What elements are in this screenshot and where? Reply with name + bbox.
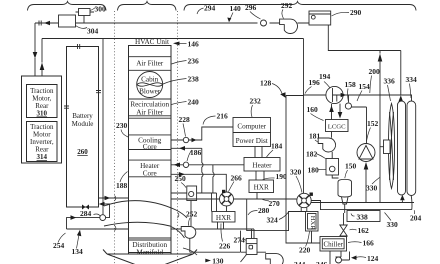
wire into fan226 — [171, 198, 297, 200]
wire battery loop — [67, 204, 110, 229]
svg-text:238: 238 — [188, 75, 200, 84]
svg-text:130: 130 — [212, 256, 224, 264]
svg-text:204: 204 — [410, 214, 422, 223]
svg-text:HXR: HXR — [254, 184, 269, 192]
svg-text:250: 250 — [175, 174, 187, 183]
HVAC unit outer box — [129, 46, 172, 255]
svg-text:HVAC Unit: HVAC Unit — [135, 38, 169, 46]
big flow arrow — [107, 253, 193, 255]
fan lens 336 — [389, 104, 395, 189]
svg-text:182: 182 — [306, 150, 318, 159]
sensor 180 — [326, 159, 339, 176]
arrow into battery — [99, 202, 105, 207]
wires computer down — [255, 147, 262, 158]
wire heater out — [171, 165, 244, 193]
label 146 — [179, 43, 187, 45]
svg-text:LCGC: LCGC — [328, 123, 346, 130]
arrow down to motor — [33, 52, 38, 59]
pump scroll bottom — [266, 254, 284, 264]
svg-text:190: 190 — [276, 172, 288, 181]
tick battery right — [96, 91, 101, 93]
wire elbow to motors — [34, 23, 36, 76]
svg-text:194: 194 — [319, 72, 331, 81]
wire 290 down-right — [328, 25, 401, 95]
svg-text:314: 314 — [37, 153, 48, 161]
valve 158 — [345, 103, 351, 109]
svg-text:180: 180 — [308, 166, 320, 175]
wire battery drop x103 — [102, 39, 104, 215]
dotted zone boundary right — [177, 11, 179, 264]
valve on battery bottom — [82, 205, 89, 210]
svg-text:294: 294 — [204, 4, 216, 13]
wire motor up — [41, 39, 43, 77]
wire 324 corner / 280 branch — [247, 199, 306, 231]
tick battery left — [64, 106, 69, 108]
svg-text:150: 150 — [345, 162, 357, 171]
arrow condenser top — [399, 95, 404, 101]
svg-text:184: 184 — [271, 142, 283, 151]
svg-text:228: 228 — [179, 115, 191, 124]
svg-text:274: 274 — [234, 236, 246, 245]
tick battery top — [78, 44, 80, 49]
condenser capsule 1 — [398, 101, 406, 195]
canister 150 — [338, 179, 352, 197]
motors outer box — [22, 76, 62, 163]
svg-text:152: 152 — [367, 119, 379, 128]
svg-text:Cabin: Cabin — [141, 76, 159, 84]
pump 292 — [280, 19, 298, 33]
heater box — [244, 158, 280, 172]
HXR box 226 — [212, 212, 235, 223]
brace right — [184, 2, 416, 11]
svg-text:Air Filter: Air Filter — [136, 60, 164, 68]
chiller box — [320, 237, 347, 252]
svg-text:Recirculation: Recirculation — [130, 101, 169, 109]
canister to valve — [344, 204, 345, 225]
fan 320 — [297, 193, 313, 208]
svg-text:Chiller: Chiller — [323, 241, 343, 249]
svg-text:344: 344 — [294, 260, 306, 264]
distribution manifold — [129, 238, 172, 253]
fan 226 — [220, 190, 234, 206]
svg-text:Manifold: Manifold — [136, 248, 163, 256]
tick on wire — [39, 21, 41, 26]
battery module box — [67, 47, 99, 208]
arrow up x380 — [378, 54, 383, 62]
lcgc compressor arrows — [332, 104, 341, 120]
arrow into heater — [174, 163, 180, 168]
HXR 220 box — [306, 212, 319, 232]
svg-text:240: 240 — [188, 98, 200, 107]
svg-text:140: 140 — [230, 4, 242, 13]
condenser capsule 2 — [407, 101, 416, 196]
wire top main y22 — [35, 22, 309, 24]
svg-text:124: 124 — [367, 254, 379, 263]
blower 181 — [318, 138, 335, 152]
svg-text:236: 236 — [188, 57, 200, 66]
circle 284 — [100, 215, 106, 221]
svg-text:188: 188 — [116, 181, 128, 190]
svg-text:310: 310 — [37, 110, 48, 118]
svg-text:154: 154 — [359, 82, 371, 91]
wire 300 to main — [76, 12, 95, 23]
svg-text:186: 186 — [190, 148, 202, 157]
svg-text:324: 324 — [267, 216, 279, 225]
svg-text:160: 160 — [307, 105, 319, 114]
brace left — [28, 2, 107, 11]
recirculation cell — [129, 99, 172, 118]
duct curve upper — [104, 201, 187, 218]
svg-text:230: 230 — [116, 121, 128, 130]
fan320 wires — [301, 201, 320, 212]
svg-text:Battery: Battery — [72, 112, 93, 120]
wire bottom y209.6 — [320, 209, 412, 211]
svg-text:HXR: HXR — [216, 214, 231, 222]
wire main refrigerant y95 — [304, 95, 412, 101]
dotted zone boundary left — [114, 11, 116, 264]
wire cooling in — [171, 148, 203, 193]
svg-text:Computer: Computer — [237, 123, 266, 131]
duct to 130 — [183, 248, 197, 255]
svg-text:158: 158 — [345, 80, 357, 89]
label 338 — [351, 214, 355, 217]
wire 128 corner — [286, 96, 320, 244]
box 304 — [59, 15, 76, 27]
wire bottom y202.5 — [304, 202, 415, 204]
wire cooling out — [171, 127, 233, 140]
heater core cell — [129, 160, 172, 177]
svg-text:254: 254 — [53, 241, 65, 250]
wire heater in — [171, 174, 226, 192]
chiller bottom wires — [330, 251, 341, 264]
valve 162 — [340, 225, 347, 236]
svg-text:232: 232 — [250, 97, 262, 106]
label 240 — [172, 102, 187, 105]
svg-text:HXR: HXR — [309, 216, 316, 231]
svg-text:304: 304 — [87, 27, 99, 36]
traction motor rear box — [27, 85, 58, 118]
svg-text:292: 292 — [281, 1, 293, 10]
svg-text:128: 128 — [260, 79, 272, 88]
svg-text:290: 290 — [350, 8, 362, 17]
svg-text:270: 270 — [269, 199, 281, 208]
arrow condenser bottom — [400, 195, 405, 201]
svg-text:320: 320 — [290, 168, 302, 177]
label 236 — [172, 61, 187, 65]
svg-text:Core: Core — [143, 170, 157, 178]
svg-text:330: 330 — [366, 184, 378, 193]
svg-text:280: 280 — [258, 206, 270, 215]
wire hxr226 down — [171, 193, 224, 229]
arrow left on top wire — [44, 21, 50, 25]
svg-text:Blower: Blower — [139, 88, 161, 96]
svg-text:336: 336 — [384, 77, 396, 86]
svg-text:266: 266 — [231, 174, 243, 183]
cabin blower — [137, 72, 163, 98]
wire 158 — [349, 95, 367, 107]
label 304 — [76, 26, 88, 29]
circle 296 — [261, 20, 267, 26]
svg-text:134: 134 — [72, 247, 84, 256]
arrow out — [105, 196, 111, 201]
circle 228 — [183, 137, 188, 142]
arrow right after 228 — [192, 138, 197, 143]
air filter cell — [129, 57, 172, 71]
svg-text:338: 338 — [357, 212, 369, 221]
svg-text:146: 146 — [188, 40, 200, 49]
wire hxr220 to chiller — [312, 231, 321, 243]
cooling core cell — [129, 135, 172, 150]
svg-text:252: 252 — [186, 210, 198, 219]
wire long y38.5 — [42, 38, 304, 40]
arrow into cooling — [179, 146, 185, 151]
box 290 — [309, 11, 331, 25]
compressor 194 — [326, 86, 343, 103]
svg-text:Power Dist: Power Dist — [236, 137, 268, 145]
pump 252 — [190, 201, 192, 227]
svg-text:162: 162 — [358, 226, 370, 235]
sensor 250 — [187, 186, 197, 201]
wire 274 bottom — [241, 231, 267, 262]
wire vertical x303.5 — [303, 39, 305, 203]
label 238 — [163, 79, 187, 85]
svg-text:Core: Core — [143, 143, 157, 151]
HXR box 190 — [249, 180, 274, 193]
wire battery out — [99, 197, 129, 199]
label 130 — [205, 259, 211, 263]
arrow right on loop — [71, 215, 77, 220]
wire bottom long y229 — [67, 229, 255, 239]
duct curve lower — [104, 222, 185, 238]
svg-text:346: 346 — [316, 260, 328, 264]
wire return x380 — [379, 62, 381, 203]
svg-text:216: 216 — [217, 112, 229, 121]
svg-text:260: 260 — [77, 148, 88, 156]
fan motor box — [384, 140, 391, 154]
svg-text:300: 300 — [95, 5, 107, 14]
brace middle — [118, 2, 177, 11]
box 338 — [347, 211, 380, 222]
label 300 — [90, 8, 96, 11]
box 300 — [79, 9, 91, 16]
svg-text:226: 226 — [219, 242, 231, 251]
svg-text:296: 296 — [245, 3, 257, 12]
wire fan226 down — [226, 206, 228, 212]
wires heater down — [256, 171, 264, 180]
svg-text:Module: Module — [72, 120, 94, 128]
traction motor inverter box — [27, 122, 58, 162]
condenser bottom tail — [410, 196, 413, 210]
label 294 — [197, 8, 204, 14]
svg-text:Air Filter: Air Filter — [136, 109, 164, 117]
arrow right heater in — [179, 172, 185, 177]
svg-text:200: 200 — [369, 67, 381, 76]
sensor 274 — [246, 239, 257, 255]
svg-text:220: 220 — [299, 246, 311, 255]
arrow up from motor — [40, 63, 45, 71]
computer power dist box — [233, 118, 271, 147]
svg-text:334: 334 — [406, 75, 418, 84]
LCGC box — [326, 120, 349, 132]
svg-text:284: 284 — [80, 209, 92, 218]
wire hxr190 down — [256, 193, 258, 200]
svg-text:166: 166 — [363, 239, 375, 248]
svg-text:330: 330 — [387, 220, 399, 229]
pump 152 — [357, 144, 375, 162]
svg-text:Heater: Heater — [252, 162, 272, 170]
circle 186 — [183, 162, 188, 167]
